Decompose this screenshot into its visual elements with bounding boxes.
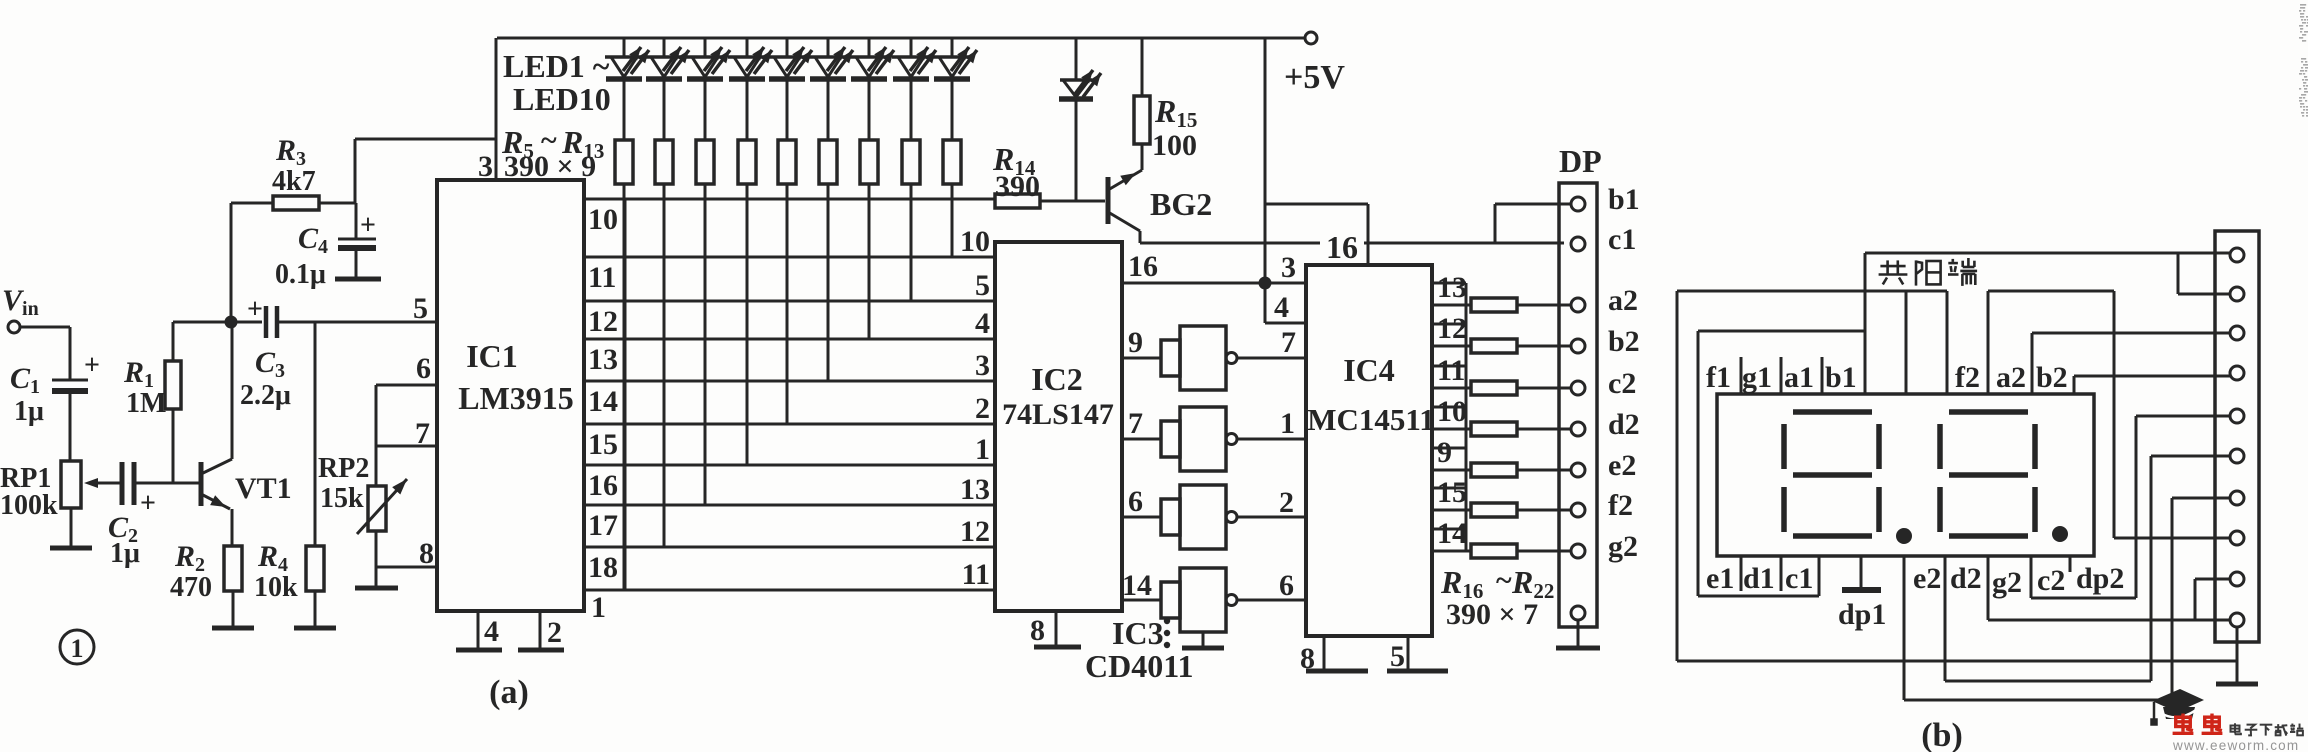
svg-text:e2: e2 — [1913, 562, 1941, 595]
svg-text:1: 1 — [1280, 407, 1295, 440]
svg-text:(a): (a) — [489, 674, 529, 711]
svg-text:12: 12 — [588, 305, 618, 338]
svg-text:IC4: IC4 — [1343, 352, 1395, 388]
svg-text:IC1: IC1 — [466, 338, 518, 374]
svg-text:+5V: +5V — [1284, 59, 1345, 96]
svg-text:1μ: 1μ — [110, 538, 140, 569]
svg-text:7: 7 — [1128, 407, 1143, 440]
svg-text:6: 6 — [1279, 569, 1294, 602]
svg-text:470: 470 — [170, 572, 212, 603]
svg-text:8: 8 — [1030, 614, 1045, 647]
svg-text:g2: g2 — [1608, 530, 1638, 563]
svg-text:+: + — [360, 210, 376, 241]
svg-text:c1: c1 — [1785, 562, 1813, 595]
svg-text:MC14511: MC14511 — [1307, 402, 1434, 437]
svg-text:6: 6 — [1128, 485, 1143, 518]
svg-text:14: 14 — [1122, 569, 1152, 602]
svg-text:+: + — [140, 488, 156, 519]
svg-text:e1: e1 — [1706, 562, 1734, 595]
svg-text:a2: a2 — [1608, 284, 1638, 317]
svg-text:a1: a1 — [1784, 361, 1814, 394]
svg-text:RP2: RP2 — [318, 453, 369, 484]
svg-text:2.2μ: 2.2μ — [240, 380, 291, 411]
svg-text:10: 10 — [960, 225, 990, 258]
svg-text:DP: DP — [1559, 143, 1602, 179]
svg-text:www.eeworm.com: www.eeworm.com — [2172, 738, 2299, 752]
svg-text:15: 15 — [588, 428, 618, 461]
svg-text:9: 9 — [1437, 436, 1452, 469]
svg-text:5: 5 — [1390, 640, 1405, 673]
svg-text:g1: g1 — [1742, 361, 1772, 394]
svg-text:b1: b1 — [1825, 361, 1857, 394]
svg-text:100k: 100k — [0, 490, 58, 521]
svg-text:c2: c2 — [2037, 564, 2065, 597]
svg-text:~: ~ — [1496, 564, 1512, 597]
svg-text:a2: a2 — [1996, 361, 2026, 394]
svg-text:13: 13 — [588, 343, 618, 376]
svg-text:0.1μ: 0.1μ — [275, 259, 326, 290]
svg-text:b2: b2 — [1608, 325, 1640, 358]
svg-text:12: 12 — [1437, 312, 1467, 345]
svg-text:390: 390 — [995, 170, 1040, 203]
svg-text:d2: d2 — [1608, 408, 1640, 441]
svg-text:VT1: VT1 — [235, 472, 292, 505]
svg-text:390 × 7: 390 × 7 — [1446, 598, 1538, 631]
svg-text:f1: f1 — [1706, 361, 1731, 394]
svg-text:100: 100 — [1152, 129, 1197, 162]
svg-text:4: 4 — [484, 615, 499, 648]
svg-text:4: 4 — [1274, 291, 1289, 324]
svg-text:IC2: IC2 — [1031, 361, 1083, 397]
svg-text:dp1: dp1 — [1838, 598, 1886, 631]
svg-text:7: 7 — [1281, 326, 1296, 359]
svg-text:1μ: 1μ — [14, 396, 44, 427]
svg-text:14: 14 — [1437, 517, 1467, 550]
svg-text:5: 5 — [413, 292, 428, 325]
svg-text:10: 10 — [1437, 395, 1467, 428]
svg-text:3: 3 — [1281, 251, 1296, 284]
svg-text:dp2: dp2 — [2076, 562, 2124, 595]
svg-text:5: 5 — [975, 269, 990, 302]
svg-text:LED10: LED10 — [513, 81, 611, 117]
svg-text:1: 1 — [591, 591, 606, 624]
svg-text:(b): (b) — [1921, 717, 1963, 752]
svg-text:18: 18 — [588, 551, 618, 584]
svg-text:g2: g2 — [1992, 566, 2022, 599]
svg-text:d2: d2 — [1950, 562, 1982, 595]
svg-text:1: 1 — [975, 433, 990, 466]
svg-text:1: 1 — [71, 634, 84, 663]
svg-text:2: 2 — [975, 392, 990, 425]
svg-text:15: 15 — [1437, 476, 1467, 509]
svg-text:f2: f2 — [1608, 489, 1633, 522]
svg-text:4: 4 — [975, 307, 990, 340]
svg-text:8: 8 — [419, 537, 434, 570]
svg-text:4k7: 4k7 — [272, 166, 316, 197]
svg-text:16: 16 — [588, 469, 618, 502]
svg-text:2: 2 — [1279, 486, 1294, 519]
svg-text:16: 16 — [1326, 229, 1358, 265]
svg-text:10: 10 — [588, 203, 618, 236]
svg-text:IC3: IC3 — [1112, 615, 1164, 651]
svg-text:b2: b2 — [2036, 361, 2068, 394]
svg-text:LED1 ~: LED1 ~ — [503, 48, 610, 84]
svg-text:9: 9 — [1128, 326, 1143, 359]
svg-text:16: 16 — [1128, 250, 1158, 283]
svg-text:15k: 15k — [320, 483, 364, 514]
svg-text:e2: e2 — [1608, 449, 1636, 482]
svg-text:3: 3 — [975, 349, 990, 382]
svg-text:+: + — [247, 294, 263, 325]
svg-text:14: 14 — [588, 385, 618, 418]
svg-text:11: 11 — [588, 261, 616, 294]
svg-text:6: 6 — [416, 352, 431, 385]
svg-text:BG2: BG2 — [1150, 186, 1212, 222]
svg-text:390 × 9: 390 × 9 — [504, 150, 596, 183]
svg-text:17: 17 — [588, 509, 618, 542]
svg-text:b1: b1 — [1608, 183, 1640, 216]
svg-text:LM3915: LM3915 — [458, 380, 574, 416]
svg-text:13: 13 — [960, 473, 990, 506]
svg-text:f2: f2 — [1955, 361, 1980, 394]
svg-text:13: 13 — [1437, 271, 1467, 304]
svg-text:2: 2 — [547, 616, 562, 649]
svg-text:CD4011: CD4011 — [1085, 648, 1193, 684]
svg-text:c1: c1 — [1608, 223, 1636, 256]
svg-text:8: 8 — [1300, 642, 1315, 675]
svg-text:7: 7 — [415, 417, 430, 450]
svg-text:d1: d1 — [1743, 562, 1775, 595]
svg-text:11: 11 — [1437, 354, 1465, 387]
svg-text:11: 11 — [962, 558, 990, 591]
svg-text:+: + — [84, 350, 100, 381]
svg-text:10k: 10k — [254, 572, 298, 603]
svg-text:1M: 1M — [126, 388, 166, 419]
svg-text:c2: c2 — [1608, 367, 1636, 400]
svg-text:74LS147: 74LS147 — [1002, 398, 1114, 431]
svg-text:12: 12 — [960, 515, 990, 548]
